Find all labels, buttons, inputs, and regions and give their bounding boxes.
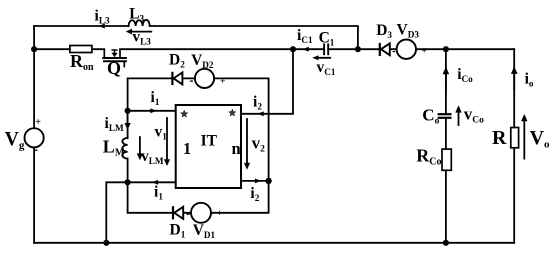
voltage arrowhead v_LM (137, 153, 143, 160)
node Co bottom (443, 240, 449, 246)
label star left (181, 110, 188, 117)
label i_L3 (95, 8, 110, 26)
current arrowhead i_o (511, 66, 518, 74)
label i_Co (457, 66, 473, 84)
current arrowhead i_C1 (303, 47, 309, 52)
label minus VD2 (190, 80, 193, 82)
wire primary top i1 (128, 110, 176, 112)
label i_C1 (297, 27, 313, 45)
label minus VD3 (393, 51, 395, 53)
svg-text:+: + (220, 77, 225, 87)
label i_LM (105, 115, 124, 133)
label plus VD3 (422, 47, 427, 57)
arrowheads (99, 24, 528, 185)
label plus VD2 (220, 77, 225, 87)
label v_Co (464, 105, 484, 126)
voltage arrowhead V_o (521, 114, 527, 121)
label v_C1 (317, 59, 336, 77)
resistor R (511, 128, 519, 148)
wire LM vertical (127, 111, 129, 183)
current arrowhead i_LM (125, 123, 131, 130)
label v_1 (155, 124, 168, 142)
wire top rail with corner down to C1 node (34, 26, 358, 49)
wire bottom rail (34, 242, 514, 244)
label v_2 (252, 134, 266, 155)
label R (492, 127, 507, 149)
label i_2 bottom (250, 185, 259, 203)
source V_D1 (191, 203, 211, 223)
node C1 right / L3 (355, 46, 361, 52)
label plus VD1 (217, 209, 222, 219)
voltage arrow v_2 (246, 119, 248, 164)
label V_o (530, 127, 550, 151)
label D_3 (376, 22, 392, 40)
voltage arrow v_Co (458, 111, 460, 125)
wire left vertical input (33, 26, 35, 243)
diode D1 (173, 206, 183, 219)
label C_1 (319, 29, 335, 47)
voltage arrowhead v_2 (244, 163, 250, 170)
voltage arrow v_L3 (130, 31, 151, 33)
svg-text:+: + (422, 47, 427, 57)
node secondary bottom (265, 178, 271, 184)
capacitor C1 (324, 43, 328, 55)
label V_D2 (191, 52, 214, 70)
label V_D1 (193, 222, 216, 240)
voltage arrowhead v_1 (164, 159, 170, 166)
inductor L3 (129, 20, 150, 26)
transformer IT box (176, 105, 241, 188)
svg-text:1: 1 (183, 139, 191, 158)
voltage arrowhead v_C1 (312, 55, 318, 60)
label i_2 top (253, 93, 262, 111)
current arrowhead i_1 top (150, 108, 156, 113)
voltage arrow v_1 (166, 118, 168, 160)
diode D2 (172, 72, 182, 85)
node link/bottom rail (103, 240, 109, 246)
voltage arrowhead v_L3 (126, 29, 132, 35)
label minus Vg (34, 149, 38, 151)
current arrowhead i_Co (443, 67, 450, 75)
capacitor Co (438, 114, 452, 118)
source V_D2 (195, 69, 214, 88)
current arrowhead i_2 top (257, 111, 263, 116)
wire primary bottom i1 and link to bottom rail (106, 182, 175, 243)
svg-text:n: n (232, 139, 241, 158)
voltage arrow v_C1 (316, 57, 331, 59)
current arrowhead i_1 bottom (152, 180, 158, 185)
label n (232, 139, 241, 158)
wire right vertical output (513, 49, 515, 243)
label L_M (103, 136, 125, 158)
source V_D3 (397, 40, 416, 59)
label i_1 top (151, 89, 160, 107)
label V_D3 (397, 22, 420, 40)
svg-text:+: + (217, 209, 222, 219)
label V_g (5, 129, 25, 152)
wire secondary bottom i2 (241, 180, 269, 182)
label v_LM (141, 148, 164, 166)
label star right (229, 109, 236, 116)
node Co top (443, 46, 449, 52)
wire output capacitor branch (445, 49, 447, 243)
wire i2 top to C1 node (241, 49, 293, 114)
inductor LM (122, 138, 127, 159)
label i_1 bottom (154, 184, 163, 202)
label R_Co (416, 146, 441, 168)
svg-text:Q: Q (107, 58, 121, 78)
current arrowhead i_L3 (99, 24, 105, 29)
svg-text:IT: IT (201, 133, 218, 150)
source Vg (24, 128, 43, 147)
svg-text:+: + (35, 117, 41, 128)
node primary bottom (125, 179, 131, 185)
label R_on (70, 51, 94, 73)
label C_o (422, 106, 439, 127)
label 1 (183, 139, 191, 158)
node input/mid-rail (31, 46, 37, 52)
label i_o (525, 71, 534, 89)
current arrow i_LM (127, 112, 129, 124)
voltage arrowhead v_Co (455, 105, 461, 112)
label L3 (129, 6, 144, 24)
voltage arrow V_o (523, 120, 525, 159)
label plus Vg (35, 117, 41, 128)
label minus VD1 (187, 213, 190, 215)
svg-text:R: R (492, 127, 507, 149)
wire D1 branch (128, 181, 269, 213)
node C1 left (290, 46, 296, 52)
current arrow i_Co (445, 75, 447, 92)
node primary top (125, 108, 131, 114)
current arrow i_o (513, 73, 515, 90)
resistor Ron (70, 46, 92, 53)
label D_1 (170, 222, 186, 240)
label IT (201, 133, 218, 150)
resistor RCo (442, 149, 451, 170)
wire mid rail (Ron-Q-C1-D3 line) (34, 48, 514, 50)
label v_L3 (132, 29, 151, 47)
label D_2 (169, 51, 185, 69)
label Q (107, 58, 121, 78)
wire D2 branch (128, 78, 269, 180)
diode D3 (380, 43, 390, 56)
transistor Q (102, 49, 127, 67)
current arrowhead i_2 bottom (255, 179, 261, 184)
voltage arrow v_LM (139, 137, 141, 154)
